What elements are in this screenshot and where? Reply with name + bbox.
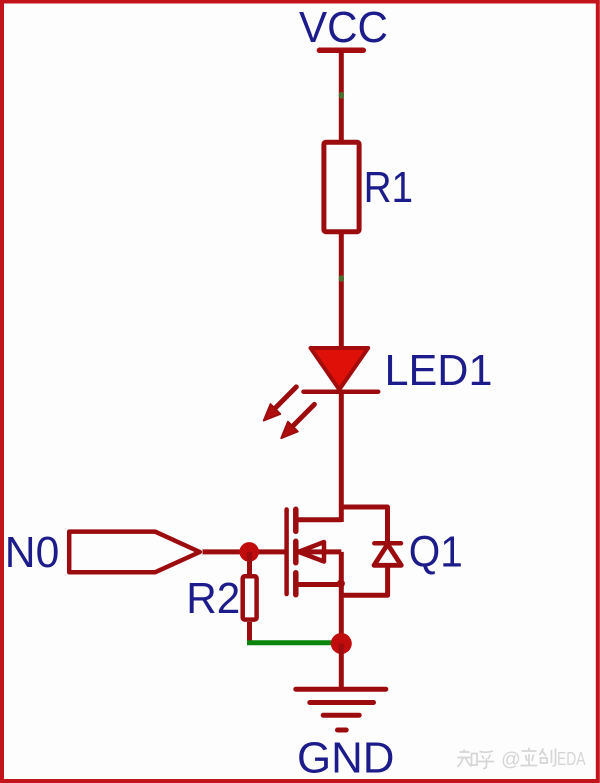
Q1 source stub bottom — [298, 582, 341, 587]
junction dot at gate node — [239, 542, 259, 562]
watermark 知乎 @立创EDA — [458, 748, 556, 769]
wire VCC to R1 — [339, 50, 344, 141]
Q1 body diode anode branch — [341, 565, 387, 595]
Q1 body diode cathode bar — [374, 541, 401, 546]
node dot (wire joint, green) — [339, 275, 344, 282]
wire gate node to R2 — [247, 552, 252, 574]
glyph 知 — [458, 750, 478, 768]
glyph 立 — [521, 748, 538, 766]
Q1 substrate arrow — [299, 542, 325, 562]
wire LED1 to Q1 drain — [339, 392, 344, 522]
Q1 body diode top branch — [341, 507, 387, 543]
ground symbol bar 1 — [296, 687, 386, 692]
svg-text:R2: R2 — [186, 574, 240, 623]
junction dot at source node — [331, 633, 352, 654]
Q1 channel segment top — [293, 509, 299, 531]
wire source node to GND — [339, 644, 344, 690]
power symbol VCC bar — [319, 48, 363, 54]
Q1 channel segment middle — [293, 541, 299, 562]
svg-text:VCC: VCC — [299, 3, 388, 52]
LED LED1 triangle — [311, 348, 369, 390]
green wire R2 to source node — [247, 640, 336, 645]
svg-text:LED1: LED1 — [385, 346, 493, 395]
ground symbol bar 2 — [310, 700, 374, 705]
wire N0 to gate — [203, 549, 287, 554]
Q1 drain stub — [298, 517, 341, 522]
svg-text:@: @ — [501, 749, 521, 771]
wire R2 to green net — [247, 622, 252, 645]
svg-text:Q1: Q1 — [409, 528, 463, 577]
svg-text:N0: N0 — [5, 528, 60, 577]
Q1 source vertical wire — [339, 552, 344, 648]
Q1 channel segment bottom — [293, 573, 299, 595]
svg-text:EDA: EDA — [557, 748, 586, 769]
Q1 body diode triangle — [374, 544, 401, 565]
resistor R2 — [243, 576, 257, 619]
node dot (wire joint, green) — [339, 92, 344, 99]
LED1 emission arrow 1 — [264, 387, 297, 421]
LED1 cathode bar — [304, 389, 379, 394]
wire R1 to LED1 — [339, 234, 344, 347]
transistor Q1 (NMOS) gate bar — [284, 510, 289, 595]
svg-text:R1: R1 — [364, 163, 414, 212]
LED1 emission arrow 2 — [281, 404, 314, 438]
ground symbol bar 3 — [323, 713, 359, 718]
resistor R1 — [324, 142, 359, 232]
glyph 创 — [540, 749, 556, 767]
glyph 乎 — [478, 751, 494, 769]
svg-text:GND: GND — [297, 733, 395, 782]
ground symbol bar 4 — [338, 728, 347, 733]
Q1 source pin dot — [337, 580, 345, 588]
Q1 source stub middle — [296, 549, 341, 554]
net flag N0 — [69, 532, 200, 573]
